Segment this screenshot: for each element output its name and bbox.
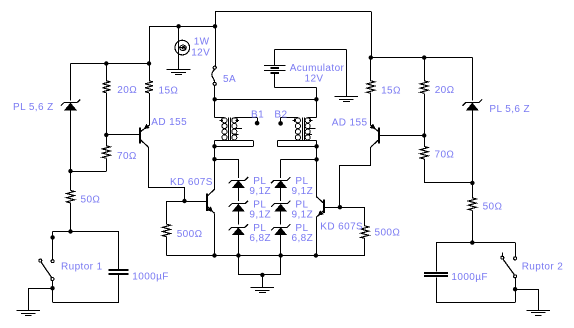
svg-text:B1: B1 [251, 109, 264, 120]
svg-text:12V: 12V [191, 48, 210, 59]
svg-text:20Ω: 20Ω [435, 85, 455, 96]
svg-text:Ruptor 2: Ruptor 2 [522, 262, 564, 273]
svg-text:50Ω: 50Ω [81, 195, 101, 206]
svg-text:15Ω: 15Ω [381, 85, 401, 96]
svg-text:20Ω: 20Ω [117, 85, 137, 96]
svg-text:5A: 5A [223, 74, 236, 85]
svg-text:9,1Z: 9,1Z [292, 210, 314, 221]
svg-text:9,1Z: 9,1Z [249, 210, 271, 221]
svg-text:PL 5,6 Z: PL 5,6 Z [13, 102, 54, 113]
svg-text:70Ω: 70Ω [435, 150, 455, 161]
svg-text:1W: 1W [194, 36, 210, 47]
svg-text:15Ω: 15Ω [159, 85, 179, 96]
svg-text:500Ω: 500Ω [375, 228, 401, 239]
svg-text:6,8Z: 6,8Z [292, 233, 314, 244]
svg-text:1000µF: 1000µF [451, 272, 488, 283]
svg-text:AD 155: AD 155 [332, 118, 368, 129]
svg-text:PL 5,6 Z: PL 5,6 Z [489, 104, 530, 115]
svg-text:Ruptor 1: Ruptor 1 [61, 261, 103, 272]
svg-text:AD 155: AD 155 [151, 117, 187, 128]
svg-text:KD 607S: KD 607S [170, 177, 213, 188]
svg-text:50Ω: 50Ω [483, 202, 503, 213]
svg-text:1000µF: 1000µF [132, 272, 169, 283]
svg-text:12V: 12V [305, 73, 324, 84]
svg-text:B2: B2 [274, 109, 287, 120]
svg-text:9,1Z: 9,1Z [249, 186, 271, 197]
svg-text:70Ω: 70Ω [117, 151, 137, 162]
svg-text:6,8Z: 6,8Z [249, 233, 271, 244]
svg-text:KD 607S: KD 607S [320, 221, 363, 232]
svg-text:500Ω: 500Ω [177, 229, 203, 240]
svg-text:9,1Z: 9,1Z [292, 186, 314, 197]
